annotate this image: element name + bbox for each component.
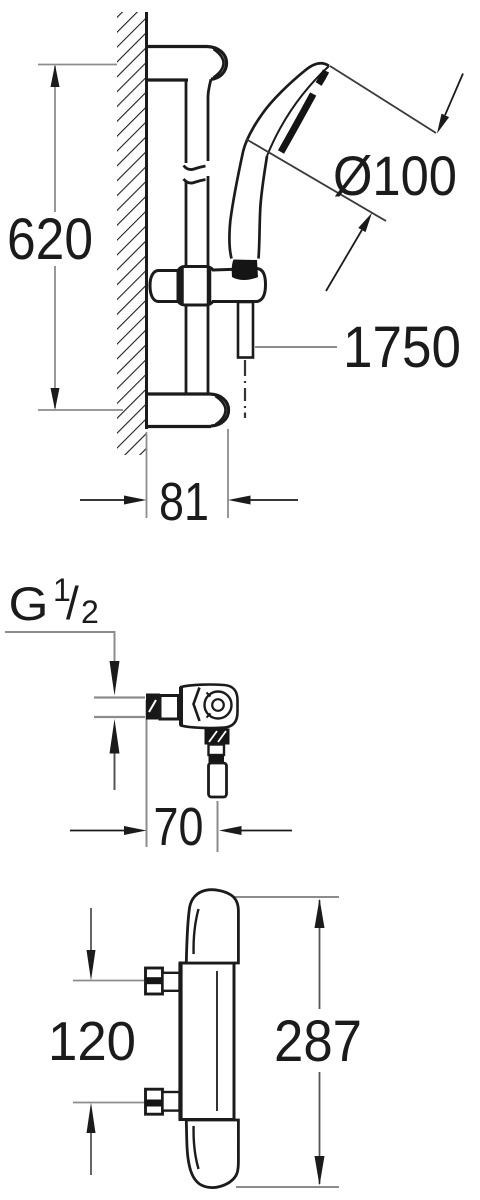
hand shower face dark sliver <box>319 71 326 84</box>
thermostat body inner line <box>216 971 218 1111</box>
wall hatching <box>117 12 146 455</box>
dimension Ø100 extension line upper <box>330 66 436 133</box>
svg-text:620: 620 <box>7 207 93 272</box>
thermostat body <box>180 963 234 1120</box>
slider holder bar <box>150 267 266 306</box>
svg-text:Ø100: Ø100 <box>333 144 457 207</box>
wall edge line <box>145 12 148 429</box>
valve nut <box>160 696 179 720</box>
dimension 81 left arrow <box>80 499 125 501</box>
dimension 287 arrow up <box>315 899 325 929</box>
valve outlet dark band <box>209 755 225 763</box>
bottom knob inner arc <box>194 1126 199 1169</box>
dimension 620 arrow up <box>51 65 60 88</box>
handle end wedge <box>232 260 258 281</box>
upper inlet inner rect <box>163 973 180 991</box>
valve thread connector (hatched) <box>146 694 160 720</box>
valve outlet neck <box>209 745 225 756</box>
thermostat 287 extension line top <box>233 896 339 898</box>
upper inlet bar <box>146 977 163 984</box>
dimension 620 extension line bottom <box>38 409 123 411</box>
svg-text:81: 81 <box>159 472 209 532</box>
wall bracket bottom <box>147 394 229 427</box>
outlet centerline extension <box>217 801 219 852</box>
dimension Ø100 arrow lower <box>326 230 362 291</box>
valve outlet thread (hatched) <box>205 729 230 745</box>
dimension 620 line <box>54 66 56 212</box>
handle right edge <box>259 156 268 259</box>
G 1/2 arrow down <box>110 661 120 696</box>
valve circle tick marks <box>207 693 211 697</box>
hose connector <box>238 302 253 358</box>
dimension 120 upper arrow <box>90 908 92 951</box>
dimension 120 lower arrow <box>90 1133 92 1175</box>
hand shower face rim <box>267 66 329 156</box>
wall plane extension line <box>146 700 148 847</box>
svg-text:/: / <box>66 577 79 629</box>
dimension 620 arrow down <box>51 388 60 410</box>
dimension Ø100 extension line lower <box>246 139 386 221</box>
thermostat bottom knob <box>186 1120 238 1188</box>
valve cone notch <box>194 688 200 722</box>
valve outlet pipe <box>209 763 227 797</box>
G 1/2 arrow up <box>110 719 120 754</box>
dimension 287 arrow down <box>315 1156 325 1186</box>
top knob inner arc <box>194 909 199 954</box>
G 1/2 leader underline <box>5 632 115 661</box>
valve inner circle <box>212 699 224 711</box>
dimension 287 line <box>319 900 321 1009</box>
thermostat top knob <box>186 890 238 963</box>
thermostat 287 extension line bottom <box>236 1186 339 1188</box>
svg-text:1750: 1750 <box>343 315 461 380</box>
slider clamp bands <box>179 267 184 304</box>
hose centerline dash-dot <box>244 360 246 418</box>
dimension 70 right arrow <box>241 830 292 832</box>
dimension 620 extension line top <box>38 64 117 66</box>
dimension Ø100 arrow upper <box>445 74 463 116</box>
valve outer circle <box>205 692 232 719</box>
svg-text:287: 287 <box>274 1009 362 1074</box>
lower inlet inner rect <box>163 1092 180 1111</box>
dimension 81 right arrow <box>250 499 298 501</box>
lower inlet outer square <box>146 1089 163 1114</box>
svg-text:70: 70 <box>154 797 204 857</box>
dimension 120 upper extension line <box>73 980 145 982</box>
lower inlet bar <box>146 1100 163 1107</box>
shower rail <box>184 79 212 393</box>
svg-text:G: G <box>9 577 49 630</box>
wall bracket top <box>147 47 227 81</box>
valve body <box>181 685 238 728</box>
dimension 120 lower extension line <box>73 1102 145 1104</box>
rail break symbol <box>184 166 206 170</box>
upper inlet outer square <box>146 968 163 994</box>
svg-text:2: 2 <box>81 594 99 630</box>
hand shower head outline <box>229 63 329 258</box>
1750 leader line <box>255 346 337 348</box>
dimension 81 extension lines <box>146 432 148 518</box>
dimension 70 left arrow <box>70 830 124 832</box>
supply pipe lines <box>94 696 145 698</box>
svg-text:120: 120 <box>48 1010 136 1072</box>
